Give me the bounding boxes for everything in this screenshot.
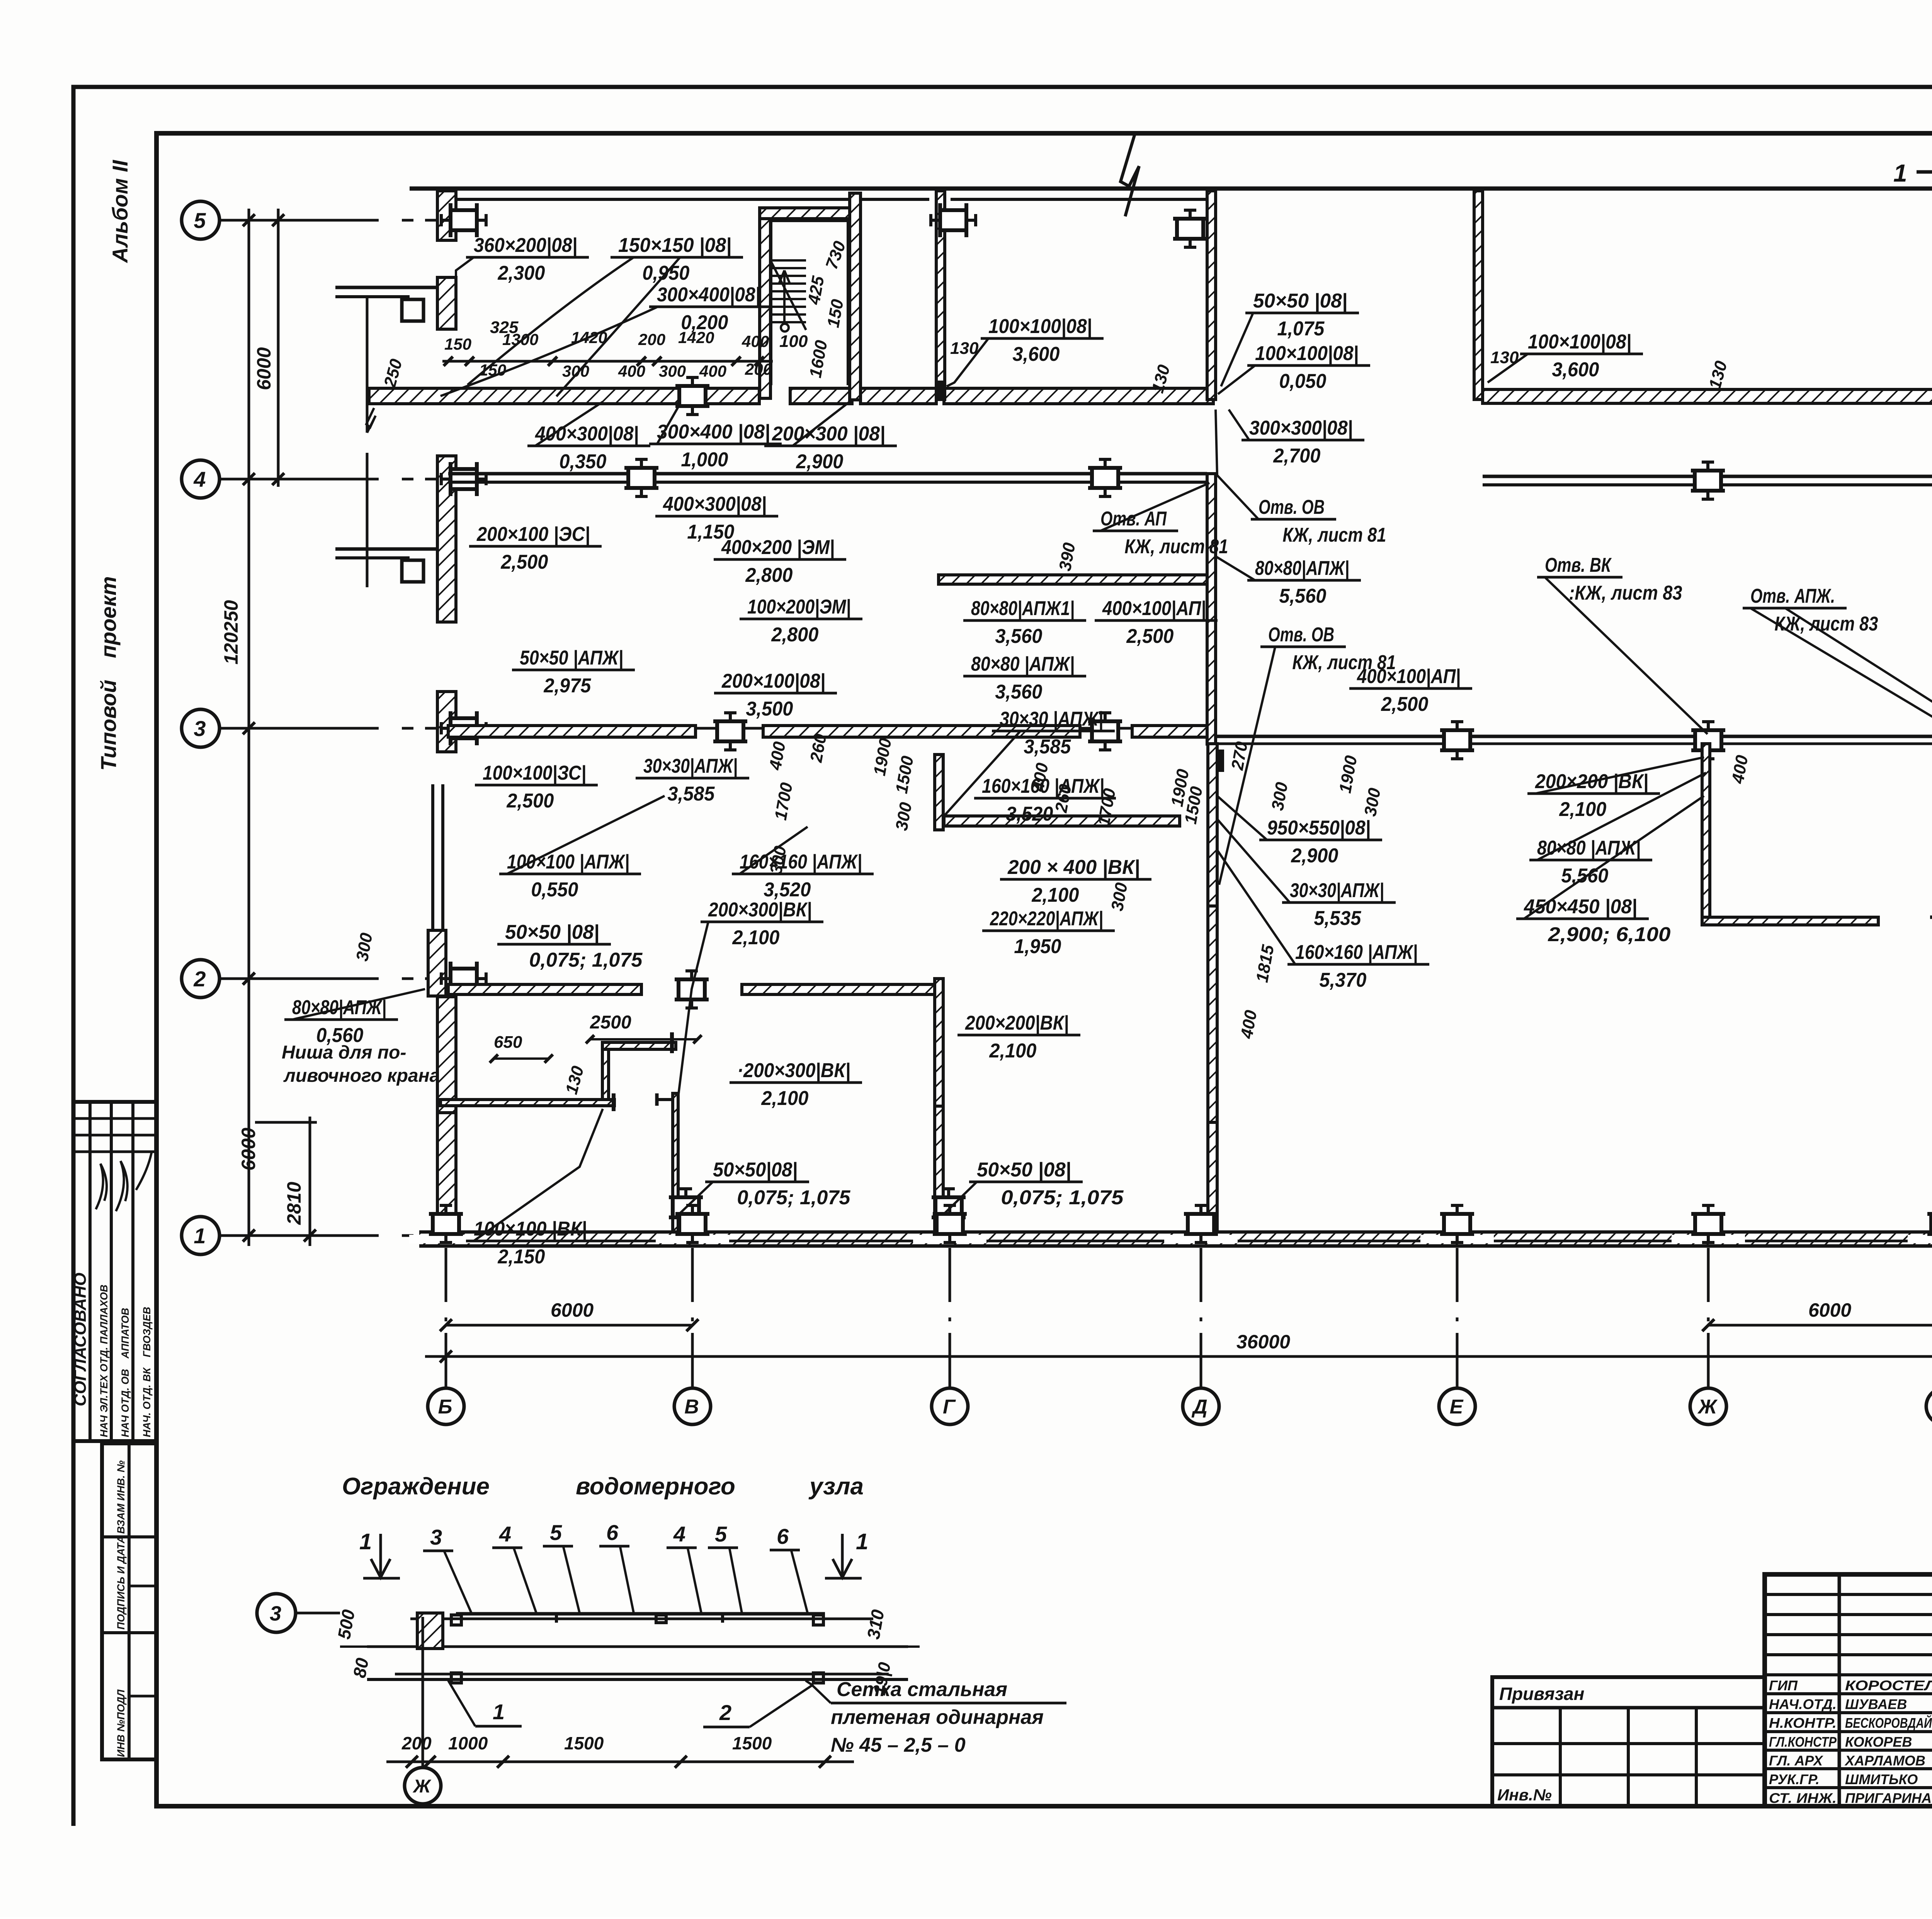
axis circle В	[674, 1388, 711, 1424]
svg-text:220×220|АПЖ|: 220×220|АПЖ|	[990, 908, 1103, 930]
axis line 3	[219, 727, 448, 730]
svg-text:120250: 120250	[220, 600, 242, 665]
svg-text:Привязан: Привязан	[1499, 1684, 1584, 1704]
bottom dim line 6000 pair	[446, 1324, 692, 1327]
fence axis 3 circle	[257, 1594, 296, 1632]
interior dim chain under axis5 rooms	[442, 360, 773, 363]
svg-text:Б: Б	[438, 1396, 452, 1418]
axis circle Ж	[1690, 1388, 1726, 1424]
svg-text:3,520: 3,520	[764, 879, 811, 901]
svg-text:3,500: 3,500	[746, 698, 793, 720]
svg-text:150: 150	[444, 335, 471, 353]
svg-text:2,700: 2,700	[1273, 445, 1320, 467]
svg-text:РУК.ГР.: РУК.ГР.	[1769, 1771, 1820, 1787]
svg-text:НАЧ. ОТД. ВК ГВОЗДЕВ: НАЧ. ОТД. ВК ГВОЗДЕВ	[141, 1307, 153, 1437]
svg-text:5,560: 5,560	[1279, 585, 1326, 607]
svg-text:80×80|АПЖ1|: 80×80|АПЖ1|	[971, 597, 1075, 620]
fence axis Zh circle	[405, 1768, 441, 1804]
svg-text:80×80 |АПЖ|: 80×80 |АПЖ|	[971, 653, 1075, 675]
svg-text:100: 100	[779, 332, 808, 351]
wall fragment right with flange	[1930, 916, 1932, 919]
svg-text:50×50 |08|: 50×50 |08|	[977, 1159, 1071, 1181]
svg-text:№ 45 – 2,5 – 0: № 45 – 2,5 – 0	[831, 1734, 966, 1756]
svg-text:400×100|АП|: 400×100|АП|	[1357, 665, 1461, 688]
svg-text:2,300: 2,300	[497, 262, 545, 284]
svg-text:300: 300	[659, 362, 686, 380]
svg-text:1: 1	[359, 1529, 372, 1554]
svg-text:3: 3	[270, 1602, 281, 1625]
svg-text:100×100|08|: 100×100|08|	[1528, 331, 1631, 353]
svg-text:0,050: 0,050	[1279, 370, 1326, 393]
svg-text:2,975: 2,975	[543, 675, 591, 697]
svg-text:6000: 6000	[238, 1128, 259, 1171]
svg-text:НАЧ ОТД. ОВ АППАТОВ: НАЧ ОТД. ОВ АППАТОВ	[119, 1308, 131, 1437]
svg-text:200: 200	[401, 1733, 432, 1753]
svg-text:2,900: 2,900	[796, 450, 843, 473]
svg-text::КЖ, лист 83: :КЖ, лист 83	[1569, 582, 1682, 604]
svg-text:50×50 |08|: 50×50 |08|	[505, 921, 599, 943]
svg-text:100×100 |АПЖ|: 100×100 |АПЖ|	[507, 851, 629, 873]
svg-text:200×200|ВК|: 200×200|ВК|	[965, 1012, 1069, 1034]
svg-text:360×200|08|: 360×200|08|	[474, 234, 577, 257]
axis line 5	[219, 219, 448, 222]
axis circle 2	[182, 960, 219, 998]
svg-text:1: 1	[493, 1700, 505, 1724]
wall axis 3 right thin	[1216, 735, 1932, 738]
axis line 4	[219, 478, 448, 481]
left dim chain total	[248, 209, 250, 1246]
svg-text:ШУВАЕВ: ШУВАЕВ	[1845, 1696, 1907, 1712]
axis circle Е	[1439, 1388, 1475, 1424]
svg-text:Отв. ОВ: Отв. ОВ	[1259, 496, 1325, 518]
svg-text:80×80|АПЖ|: 80×80|АПЖ|	[1255, 557, 1349, 580]
svg-text:5: 5	[550, 1520, 562, 1545]
wall G upper piece	[935, 755, 943, 830]
svg-text:2,500: 2,500	[506, 790, 554, 812]
wall break symbol	[1121, 135, 1139, 216]
svg-text:200: 200	[745, 360, 772, 378]
svg-text:325: 325	[490, 318, 519, 337]
svg-text:ИНВ №ПОДЛ: ИНВ №ПОДЛ	[115, 1689, 127, 1757]
column at B on top band	[679, 386, 706, 406]
svg-text:НАЧ.ОТД.: НАЧ.ОТД.	[1769, 1696, 1837, 1712]
svg-text:КЖ, лист 81: КЖ, лист 81	[1282, 524, 1386, 546]
svg-text:ГЛ.КОНСТР: ГЛ.КОНСТР	[1769, 1734, 1837, 1750]
svg-text:36000: 36000	[1236, 1331, 1290, 1353]
svg-text:80×80 |АПЖ|: 80×80 |АПЖ|	[1537, 837, 1641, 859]
svg-text:1,075: 1,075	[1277, 318, 1325, 340]
svg-text:200×100|08|: 200×100|08|	[721, 670, 825, 692]
svg-text:ХАРЛАМОВ: ХАРЛАМОВ	[1844, 1752, 1925, 1768]
svg-text:2500: 2500	[590, 1012, 631, 1033]
svg-text:КОКОРЕВ: КОКОРЕВ	[1845, 1734, 1912, 1750]
axis circle 4	[182, 460, 219, 498]
privyazan table	[1492, 1677, 1765, 1806]
svg-text:1000: 1000	[448, 1733, 488, 1753]
svg-text:5,370: 5,370	[1319, 969, 1366, 991]
svg-text:ПРИГАРИНА: ПРИГАРИНА	[1845, 1790, 1932, 1806]
svg-text:3,520: 3,520	[1006, 803, 1053, 825]
svg-text:400: 400	[699, 362, 726, 380]
axis circle 1	[182, 1217, 219, 1254]
svg-text:Д: Д	[1191, 1396, 1207, 1418]
svg-text:плетеная одинарная: плетеная одинарная	[831, 1706, 1044, 1729]
svg-text:650: 650	[494, 1033, 522, 1052]
svg-text:400: 400	[742, 332, 769, 350]
svg-text:Н.КОНТР.: Н.КОНТР.	[1769, 1715, 1837, 1731]
svg-text:2,500: 2,500	[1381, 693, 1428, 716]
svg-text:0,075; 1,075: 0,075; 1,075	[1001, 1186, 1124, 1209]
svg-text:0,200: 0,200	[681, 311, 728, 334]
column at axis 2 left	[451, 969, 477, 989]
svg-text:4: 4	[193, 467, 206, 491]
svg-text:2,900: 2,900	[1291, 845, 1338, 867]
svg-text:6: 6	[606, 1520, 619, 1545]
svg-text:2,100: 2,100	[761, 1087, 808, 1110]
svg-text:НАЧ ЭЛ.ТЕХ ОТД. ПАЛЛАХОВ: НАЧ ЭЛ.ТЕХ ОТД. ПАЛЛАХОВ	[98, 1285, 110, 1437]
svg-text:300×300|08|: 300×300|08|	[1249, 417, 1353, 439]
left dim 2810	[309, 1117, 311, 1246]
svg-text:30×30|АПЖ|: 30×30|АПЖ|	[643, 755, 738, 777]
bottom outer wall axis 1	[419, 1231, 1932, 1234]
axis circle 5	[182, 201, 219, 239]
partition ticks 50x50 col axis G	[935, 1197, 962, 1217]
partition wall x1741	[673, 1093, 678, 1232]
svg-text:Е: Е	[1450, 1396, 1464, 1418]
svg-text:400: 400	[618, 362, 645, 380]
svg-text:Альбом II: Альбом II	[108, 160, 132, 263]
column at axis 4 left	[451, 469, 477, 489]
svg-text:3,600: 3,600	[1552, 359, 1599, 381]
svg-text:50×50|08|: 50×50|08|	[713, 1159, 798, 1181]
svg-text:400×300|08|: 400×300|08|	[535, 423, 639, 445]
svg-text:ГЛ. АРХ: ГЛ. АРХ	[1769, 1752, 1823, 1768]
wall axis 4 right part	[1483, 475, 1932, 478]
svg-text:2,100: 2,100	[989, 1040, 1036, 1062]
inventory table VZAM INV	[102, 1443, 156, 1759]
svg-text:30×30 |АПЖ|: 30×30 |АПЖ|	[1000, 708, 1103, 730]
svg-text:Ниша для по-: Ниша для по-	[282, 1042, 406, 1063]
axis circle 3	[182, 709, 219, 747]
vertical wall x2423 lower	[935, 979, 943, 1106]
fence posts	[417, 1613, 443, 1649]
svg-text:1,950: 1,950	[1014, 935, 1061, 958]
svg-text:КОРОСТЕЛЕВ: КОРОСТЕЛЕВ	[1845, 1678, 1932, 1693]
svg-text:6000: 6000	[253, 347, 275, 390]
svg-text:100×100|08|: 100×100|08|	[1255, 342, 1359, 365]
svg-text:200 × 400 |ВК|: 200 × 400 |ВК|	[1007, 856, 1140, 879]
room G-D mid band at axis 2-3	[944, 816, 1180, 826]
svg-text:2: 2	[193, 967, 206, 991]
svg-text:6000: 6000	[1808, 1299, 1851, 1321]
svg-text:2: 2	[719, 1700, 731, 1725]
svg-text:200×100 |ЭС|: 200×100 |ЭС|	[476, 523, 590, 546]
wall axis 3 left hatched	[448, 726, 696, 737]
svg-text:2,150: 2,150	[497, 1246, 545, 1268]
svg-text:100×100|ЗС|: 100×100|ЗС|	[483, 762, 586, 784]
wall axis 4 row	[448, 472, 1207, 476]
svg-text:5: 5	[194, 208, 206, 233]
wall axis 2	[448, 984, 641, 994]
axis line 2	[219, 977, 448, 980]
svg-text:80: 80	[349, 1656, 372, 1679]
svg-text:0,550: 0,550	[531, 879, 578, 901]
approval table SOGLASOVANO	[73, 1102, 156, 1441]
wall right of room 2 (axis D side)	[1207, 191, 1216, 399]
column at axis 3 left	[451, 718, 477, 738]
wall between stairwell and room 2	[936, 191, 945, 399]
svg-text:2,500: 2,500	[1126, 625, 1173, 648]
fence axis line	[340, 1645, 920, 1648]
svg-text:Отв. ОВ: Отв. ОВ	[1268, 624, 1334, 646]
svg-text:2,100: 2,100	[1031, 884, 1079, 906]
svg-text:3,585: 3,585	[667, 783, 715, 805]
leader lines	[456, 257, 474, 325]
svg-text:Сетка стальная: Сетка стальная	[837, 1678, 1007, 1701]
svg-text:1: 1	[194, 1224, 206, 1248]
svg-text:2,100: 2,100	[1559, 798, 1606, 821]
svg-text:узла: узла	[808, 1473, 864, 1500]
column at axis 5 left	[451, 210, 477, 230]
svg-text:ПОДПИСЬ И ДАТА: ПОДПИСЬ И ДАТА	[115, 1536, 127, 1630]
svg-text:Г: Г	[943, 1396, 956, 1418]
svg-text:200×300|ВК|: 200×300|ВК|	[708, 899, 812, 921]
svg-text:2,800: 2,800	[771, 624, 818, 646]
svg-text:ШМИТЬКО: ШМИТЬКО	[1845, 1771, 1918, 1787]
svg-text:ливочного крана: ливочного крана	[283, 1066, 440, 1086]
svg-text:2,800: 2,800	[745, 564, 793, 586]
svg-text:100×200|ЭМ|: 100×200|ЭМ|	[747, 596, 851, 618]
bottom wall of top rooms	[369, 388, 759, 404]
svg-text:1: 1	[856, 1529, 868, 1554]
svg-text:1500: 1500	[732, 1733, 772, 1753]
entrance canopy axis 4-3	[335, 547, 437, 551]
svg-text:3,585: 3,585	[1024, 736, 1071, 758]
svg-text:3,560: 3,560	[995, 681, 1042, 703]
svg-text:Типовой проект: Типовой проект	[96, 576, 121, 771]
svg-text:Ж: Ж	[1697, 1396, 1718, 1418]
vertical wall axis G lower	[1208, 744, 1217, 906]
svg-text:2,500: 2,500	[500, 551, 548, 573]
svg-text:200: 200	[638, 330, 665, 348]
svg-text:3: 3	[194, 716, 206, 741]
svg-text:Ж: Ж	[412, 1776, 432, 1797]
svg-text:0,075; 1,075: 0,075; 1,075	[737, 1186, 850, 1209]
svg-text:30×30|АПЖ|: 30×30|АПЖ|	[1290, 879, 1384, 902]
svg-text:Инв.№: Инв.№	[1497, 1786, 1552, 1804]
svg-text:ВЗАМ ИНВ. №: ВЗАМ ИНВ. №	[115, 1460, 127, 1534]
svg-text:СОГЛАСОВАНО: СОГЛАСОВАНО	[71, 1273, 90, 1406]
svg-text:КЖ, лист 81: КЖ, лист 81	[1124, 535, 1228, 558]
svg-text:300×400|08|: 300×400|08|	[657, 284, 760, 306]
svg-text:3: 3	[430, 1525, 442, 1549]
svg-text:50×50 |08|: 50×50 |08|	[1253, 290, 1347, 312]
top outer wall	[410, 187, 1932, 191]
svg-text:300×400 |08|: 300×400 |08|	[657, 421, 770, 443]
svg-text:6: 6	[777, 1524, 789, 1548]
axis circle Г	[932, 1388, 968, 1424]
axis line 1	[219, 1234, 448, 1237]
svg-text:400×200 |ЭМ|: 400×200 |ЭМ|	[721, 536, 835, 559]
vertical wall left of axis G	[1207, 474, 1216, 744]
svg-text:160×160 |АПЖ|: 160×160 |АПЖ|	[1295, 941, 1418, 964]
svg-text:ГИП: ГИП	[1769, 1678, 1798, 1693]
right room left wall	[1474, 191, 1483, 399]
svg-text:5,535: 5,535	[1314, 907, 1361, 930]
entrance canopy axis 5-4	[335, 286, 437, 289]
title block main	[1765, 1574, 1932, 1806]
svg-text:Отв. ВК: Отв. ВК	[1545, 554, 1612, 576]
svg-text:2,900; 6,100: 2,900; 6,100	[1548, 923, 1670, 946]
bottom dim line 36000	[425, 1355, 1932, 1358]
svg-text:В: В	[684, 1396, 699, 1418]
left outer wall (axis B)	[437, 191, 456, 240]
svg-text:2810: 2810	[283, 1182, 305, 1225]
svg-text:0,350: 0,350	[559, 450, 606, 473]
axis circle И	[1926, 1388, 1932, 1424]
svg-text:3,560: 3,560	[995, 625, 1042, 648]
svg-text:водомерного: водомерного	[576, 1473, 735, 1500]
svg-text:950×550|08|: 950×550|08|	[1267, 817, 1371, 839]
axis circle Б	[428, 1388, 464, 1424]
step wall water unit	[602, 1042, 676, 1049]
svg-text:6000: 6000	[551, 1299, 594, 1321]
svg-text:200×300 |08|: 200×300 |08|	[772, 423, 885, 445]
room G-D bottom wall	[939, 575, 1207, 584]
svg-text:·200×300|ВК|: ·200×300|ВК|	[737, 1059, 850, 1082]
svg-text:1: 1	[1893, 159, 1907, 187]
svg-text:3,600: 3,600	[1012, 343, 1060, 365]
svg-text:Отв. АПЖ.: Отв. АПЖ.	[1750, 585, 1835, 607]
svg-text:4: 4	[673, 1522, 685, 1546]
svg-text:4: 4	[499, 1522, 511, 1546]
stair treads	[770, 259, 806, 262]
svg-text:1500: 1500	[564, 1733, 604, 1753]
left dim chain 6000 top	[277, 209, 280, 487]
svg-text:150×150 |08|: 150×150 |08|	[618, 234, 731, 257]
fence plan	[456, 1612, 825, 1616]
svg-text:400×300|08|: 400×300|08|	[663, 493, 767, 515]
svg-text:2,100: 2,100	[732, 926, 779, 949]
svg-text:1,000: 1,000	[681, 449, 728, 471]
stairwell walls	[760, 208, 861, 219]
svg-text:400×100|АП|: 400×100|АП|	[1102, 597, 1206, 620]
svg-text:Ограждение: Ограждение	[342, 1473, 490, 1500]
svg-text:100×100|08|: 100×100|08|	[988, 315, 1092, 338]
L-wall 450x450 room	[1702, 744, 1710, 918]
svg-text:50×50 |АПЖ|: 50×50 |АПЖ|	[520, 647, 623, 669]
svg-text:БЕСКОРОВДАЙНЫЙ: БЕСКОРОВДАЙНЫЙ	[1845, 1715, 1932, 1731]
axis circle Д	[1183, 1388, 1219, 1424]
axis line 3 across plan	[448, 727, 1209, 730]
fence dims	[386, 1761, 854, 1763]
svg-text:СТ. ИНЖ.: СТ. ИНЖ.	[1769, 1790, 1837, 1806]
svg-text:0,075; 1,075: 0,075; 1,075	[529, 949, 643, 971]
svg-text:5: 5	[715, 1522, 727, 1546]
